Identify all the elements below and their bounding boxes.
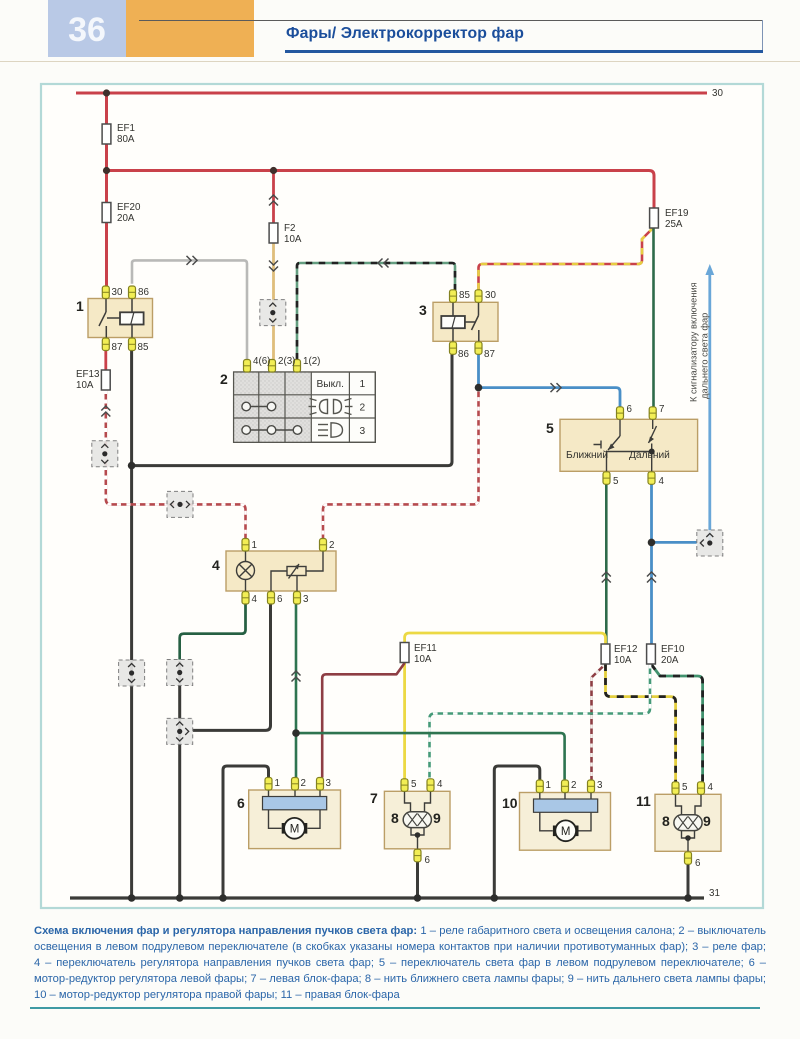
svg-text:1: 1 [359,379,365,390]
svg-text:EF20: EF20 [117,202,141,213]
svg-text:4(6): 4(6) [253,356,270,367]
svg-text:EF13: EF13 [76,369,100,380]
svg-text:2: 2 [220,371,228,387]
svg-text:86: 86 [458,349,469,360]
svg-text:8: 8 [391,810,399,826]
svg-text:2: 2 [359,403,365,414]
svg-text:8: 8 [662,813,670,829]
svg-text:6: 6 [425,855,431,866]
svg-text:5: 5 [682,782,688,793]
svg-text:5: 5 [546,420,554,436]
svg-text:9: 9 [433,810,441,826]
svg-text:10A: 10A [284,234,302,245]
svg-text:EF1: EF1 [117,123,135,134]
svg-text:1: 1 [275,778,280,789]
svg-text:86: 86 [138,287,149,298]
svg-text:EF12: EF12 [614,644,637,655]
svg-text:80A: 80A [117,134,135,145]
svg-text:87: 87 [112,342,123,353]
svg-text:10: 10 [502,795,518,811]
svg-text:7: 7 [370,790,378,806]
svg-text:Выкл.: Выкл. [316,379,343,390]
svg-text:31: 31 [709,888,720,899]
svg-text:11: 11 [636,793,651,809]
svg-text:2(3): 2(3) [278,356,295,367]
svg-text:3: 3 [359,426,365,437]
svg-text:1: 1 [76,298,84,314]
svg-text:6: 6 [277,594,283,605]
svg-text:30: 30 [712,88,723,99]
svg-text:20A: 20A [661,655,679,666]
svg-text:5: 5 [613,476,619,487]
svg-text:6: 6 [695,858,701,869]
svg-text:25A: 25A [665,219,683,230]
svg-text:Ближний: Ближний [566,450,608,461]
svg-text:3: 3 [303,594,309,605]
svg-text:10A: 10A [76,380,94,391]
svg-text:85: 85 [459,290,470,301]
svg-text:4: 4 [708,782,714,793]
svg-text:5: 5 [411,779,417,790]
svg-text:1: 1 [252,540,257,551]
svg-text:10A: 10A [414,654,432,665]
svg-text:1: 1 [546,780,551,791]
svg-text:87: 87 [484,349,495,360]
svg-text:3: 3 [326,778,332,789]
svg-text:EF19: EF19 [665,208,688,219]
svg-text:дальнего света фар: дальнего света фар [700,313,710,399]
svg-text:3: 3 [597,780,603,791]
svg-text:4: 4 [659,476,665,487]
svg-text:6: 6 [237,795,245,811]
svg-text:F2: F2 [284,223,295,234]
svg-text:20A: 20A [117,213,135,224]
svg-text:10A: 10A [614,655,632,666]
svg-text:EF11: EF11 [414,643,437,654]
svg-text:2: 2 [329,540,334,551]
svg-text:M: M [290,824,300,836]
svg-text:Дальний: Дальний [629,450,670,461]
svg-text:EF10: EF10 [661,644,685,655]
svg-text:2: 2 [571,780,576,791]
svg-text:4: 4 [212,557,220,573]
svg-text:30: 30 [112,287,123,298]
svg-text:К сигнализатору включения: К сигнализатору включения [689,282,699,402]
svg-text:7: 7 [659,404,664,415]
svg-text:M: M [561,826,571,838]
svg-text:30: 30 [485,290,496,301]
svg-text:2: 2 [301,778,306,789]
svg-text:3: 3 [419,302,427,318]
svg-text:6: 6 [627,404,633,415]
svg-text:9: 9 [703,813,711,829]
svg-text:4: 4 [437,779,443,790]
svg-text:4: 4 [252,594,258,605]
svg-text:85: 85 [138,342,149,353]
svg-text:1(2): 1(2) [303,356,320,367]
